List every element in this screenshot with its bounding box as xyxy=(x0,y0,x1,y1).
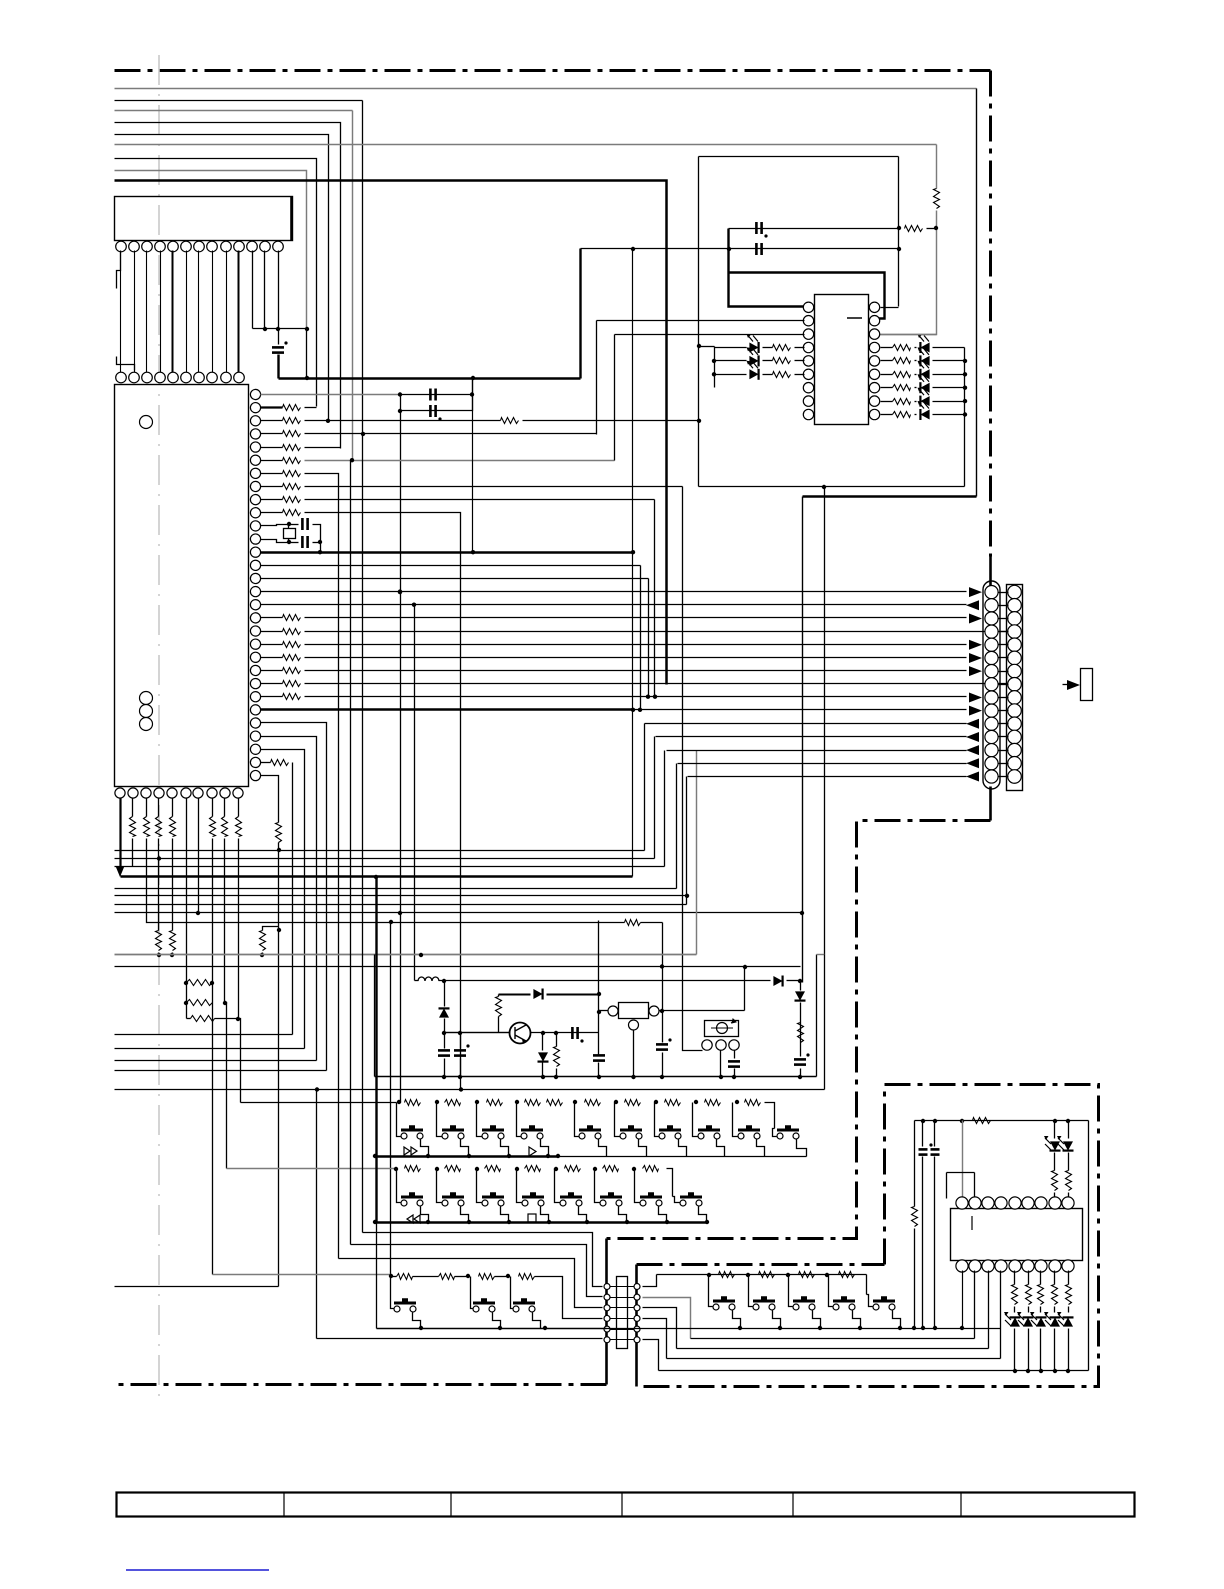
wire P5 extension xyxy=(115,1089,825,1091)
junction xyxy=(210,981,214,985)
junction xyxy=(1026,1369,1030,1373)
w xyxy=(933,374,965,376)
w xyxy=(1040,1307,1042,1313)
arrowhead into CN1-7 xyxy=(969,666,982,676)
hole xyxy=(140,718,153,731)
switch S24 xyxy=(793,1298,815,1310)
w xyxy=(922,1121,924,1147)
resistor key4 xyxy=(759,1272,775,1278)
wire x824 lower xyxy=(824,955,826,1090)
switch wire up xyxy=(655,1103,659,1137)
wire IC2 pin7 xyxy=(261,473,283,475)
w xyxy=(922,1157,924,1329)
CN1 mate pin 7 xyxy=(1008,664,1022,678)
w xyxy=(1040,1271,1042,1285)
capacitor C10 electrolytic xyxy=(454,1050,466,1055)
jumper box left xyxy=(946,1173,948,1199)
junction xyxy=(697,419,701,423)
junction xyxy=(498,1326,502,1330)
wire col198 xyxy=(198,799,200,913)
junction xyxy=(398,589,402,593)
IC2 bottom pin 10 xyxy=(233,788,243,798)
switch S19 xyxy=(394,1300,416,1312)
switch wire down xyxy=(579,1207,587,1223)
resistor on pin30 line xyxy=(276,823,282,843)
junction xyxy=(858,1326,862,1330)
junction xyxy=(597,1075,601,1079)
w xyxy=(1054,1193,1056,1199)
IC1 right edge thick xyxy=(290,197,293,241)
CN1 pin 3 xyxy=(985,612,998,625)
w xyxy=(763,374,773,376)
wire IC2 pin21 xyxy=(261,657,283,659)
CN1 pin 1 xyxy=(985,586,998,599)
tick xyxy=(999,723,1009,725)
bus wire VDD xyxy=(115,88,977,90)
junction xyxy=(963,399,967,403)
thick wire up to cap row xyxy=(579,249,581,379)
junction xyxy=(707,1273,711,1277)
w xyxy=(498,995,500,997)
thick wire xyxy=(499,994,531,996)
IC2 bottom pin 5 xyxy=(167,788,177,798)
tick xyxy=(999,750,1009,752)
wire to riser xyxy=(263,927,279,931)
resistor col x212 xyxy=(210,817,216,837)
wire x307 lower xyxy=(306,329,308,379)
switch wire up xyxy=(575,1103,579,1137)
U2 pin L2 xyxy=(803,316,813,326)
IC4 bottom pin x1055 xyxy=(1049,1260,1061,1272)
w xyxy=(1040,1329,1042,1371)
wire to CN1-7 xyxy=(305,670,967,672)
IC3 pin in xyxy=(608,1006,618,1016)
connector row pin 2 xyxy=(129,372,140,383)
wire xyxy=(305,486,683,488)
junction xyxy=(573,1100,577,1104)
tick xyxy=(999,657,1009,659)
resistor key xyxy=(487,1100,503,1106)
resistor key xyxy=(585,1100,601,1106)
w xyxy=(1054,1153,1056,1171)
junction xyxy=(426,1154,430,1158)
arrowhead out of CN1-2 xyxy=(966,600,979,610)
wire IC1 pin7 to CN row xyxy=(198,251,200,373)
wire P4 xyxy=(115,1070,327,1072)
wire IC2 pin14 xyxy=(261,565,641,567)
wire CN2-3 xyxy=(643,1308,677,1349)
key row2 feed gray xyxy=(227,1168,397,1170)
junction xyxy=(157,953,161,957)
wire to riser xyxy=(305,407,317,409)
junction xyxy=(276,327,280,331)
U3 pin3 xyxy=(729,1040,739,1050)
w xyxy=(763,347,773,349)
junction xyxy=(263,327,267,331)
capacitor C4 xyxy=(302,518,307,530)
switch wire down xyxy=(679,1139,687,1157)
diode D14 xyxy=(538,1052,548,1061)
switch wire down xyxy=(541,1139,549,1157)
capacitor C12 xyxy=(593,1055,605,1060)
switch S1 xyxy=(401,1127,423,1139)
U3 pin1 xyxy=(702,1040,712,1050)
wire col x225 xyxy=(224,799,226,817)
connector row pin 6 xyxy=(181,372,192,383)
tick xyxy=(999,697,1009,699)
resistor R18 xyxy=(271,760,289,766)
IC2 bottom pin 4 xyxy=(154,788,164,798)
connector CN2 housing xyxy=(617,1277,628,1349)
tick xyxy=(611,1329,635,1331)
jumper box top xyxy=(947,1172,975,1174)
wire cap row xyxy=(729,228,899,230)
wire IC2 pin8 xyxy=(261,486,283,488)
CN1 mate pin 4 xyxy=(1008,625,1022,639)
wire down to pin4 row xyxy=(362,101,364,435)
junction xyxy=(318,540,322,544)
w xyxy=(1014,1271,1016,1285)
diode D13 xyxy=(533,989,542,999)
junction xyxy=(897,226,901,230)
resistor key3 xyxy=(479,1274,495,1280)
CN1 mate pin 6 xyxy=(1008,651,1022,665)
wire to photodiode D1 xyxy=(715,347,747,349)
op-amp U2 driver IC xyxy=(815,295,869,425)
wire col x159 xyxy=(158,799,160,817)
resistor R29 xyxy=(893,372,911,378)
capacitor C3 electrolytic xyxy=(430,405,435,417)
switch S21 xyxy=(513,1300,535,1312)
switch wire down xyxy=(599,1139,607,1157)
switch wire down xyxy=(853,1311,861,1329)
switch S15 xyxy=(560,1194,582,1206)
bus wire 7 down to pin2 row xyxy=(115,159,317,407)
wire U2 R8 xyxy=(881,401,893,403)
IC2 pin 27 xyxy=(250,731,260,741)
junction xyxy=(825,1273,829,1277)
wire IC2 pin29 xyxy=(261,762,271,764)
thick bus wire to connector row8 xyxy=(115,181,667,685)
connector CN1 right housing xyxy=(1007,585,1023,791)
junction xyxy=(442,979,446,983)
resistor R40 xyxy=(973,1118,991,1124)
junction xyxy=(398,590,402,594)
resistor R36 xyxy=(625,920,641,926)
junction xyxy=(798,1075,802,1079)
bus row H xyxy=(115,912,803,914)
connector row pin 4 xyxy=(155,372,166,383)
switch S12 xyxy=(442,1194,464,1206)
CN1 pin 6 xyxy=(985,651,998,664)
IC4 top pin x1055 xyxy=(1049,1197,1061,1209)
wire IC1 pin6 to CN row xyxy=(186,251,188,373)
wire down long xyxy=(305,513,461,1090)
junction xyxy=(597,1010,601,1014)
key bus row1 thin xyxy=(559,1156,807,1158)
CN1 mate pin 1 xyxy=(1008,585,1022,599)
junction xyxy=(585,1220,589,1224)
wire U2 R7 xyxy=(881,387,893,389)
resistor key4 xyxy=(719,1272,735,1278)
wire xyxy=(1063,684,1069,686)
w xyxy=(800,981,802,991)
junction xyxy=(223,1001,227,1005)
IC2 pin 14 xyxy=(250,560,260,570)
capacitor C5 xyxy=(302,536,307,548)
U2 pin L7 xyxy=(803,383,813,393)
junction xyxy=(625,1220,629,1224)
wire down to key row3 xyxy=(390,923,392,1277)
CN2 pin 3 xyxy=(604,1305,610,1311)
switch wire down xyxy=(501,1139,509,1157)
bus wire 5 down to pin3 row xyxy=(115,135,329,421)
LED common bus xyxy=(964,348,966,487)
wire col186 xyxy=(186,799,188,1019)
resistor R34 xyxy=(496,997,502,1017)
main board outline right solid into connector xyxy=(989,557,992,587)
resistor R16 xyxy=(283,681,301,687)
w xyxy=(933,414,965,416)
resistor R46 xyxy=(1038,1285,1044,1305)
gray link xyxy=(817,954,825,956)
junction xyxy=(1066,1369,1070,1373)
CN2 mate pin 5 xyxy=(634,1326,640,1332)
w xyxy=(795,347,805,349)
wire IC2 pin10 xyxy=(261,512,283,514)
junction xyxy=(960,1326,964,1330)
resistor R26 xyxy=(773,372,791,378)
wire IC2 pin1 xyxy=(261,394,401,396)
U2 pin R6 xyxy=(869,369,879,379)
junction xyxy=(963,412,967,416)
resistor R13 xyxy=(283,642,301,648)
resistor R near border xyxy=(934,189,940,209)
resistor key xyxy=(705,1100,721,1106)
wire to CN2-4 xyxy=(535,1277,603,1319)
junction xyxy=(934,226,938,230)
junction xyxy=(470,392,474,396)
switch wire up xyxy=(471,1277,473,1309)
IC4 top pin x1068 xyxy=(1062,1197,1074,1209)
junction xyxy=(653,695,657,699)
w xyxy=(215,1018,239,1020)
IC4 bottom pin x975 xyxy=(969,1260,981,1272)
CN1 mate pin 5 xyxy=(1008,638,1022,652)
wire IC2 pin16 to CN1-1 xyxy=(261,591,967,593)
junction xyxy=(631,1075,635,1079)
row 1349 xyxy=(677,1348,989,1350)
wire xyxy=(288,525,290,529)
wire IC1 pin8 to CN row xyxy=(212,251,214,373)
wire IC2 pin18 xyxy=(261,617,283,619)
tick xyxy=(999,710,1009,712)
w xyxy=(1068,1121,1070,1139)
tick xyxy=(999,776,1009,778)
CN2 mate pin 1 xyxy=(634,1284,640,1290)
junction xyxy=(426,1220,430,1224)
w xyxy=(641,922,663,924)
capacitor C1 electrolytic xyxy=(272,347,284,352)
resistor R4 xyxy=(283,431,301,437)
w xyxy=(547,994,599,996)
connector row pin 10 xyxy=(234,372,245,383)
IC4 pin wire xyxy=(988,1271,990,1349)
w xyxy=(1028,1329,1030,1371)
tick xyxy=(611,1339,635,1341)
junction xyxy=(374,875,378,879)
w xyxy=(1014,1329,1016,1371)
junction xyxy=(1053,1119,1057,1123)
CN1 pin 9 xyxy=(985,691,998,704)
thick wire IC2 pin25 xyxy=(261,708,633,710)
junction xyxy=(541,1031,545,1035)
wire IC2 pin24 xyxy=(261,696,283,698)
wire stub left xyxy=(117,251,121,289)
junction xyxy=(654,1100,658,1104)
w xyxy=(158,953,160,955)
switch S2 xyxy=(442,1127,464,1139)
CN1 pin 15 xyxy=(985,770,998,783)
wire col238 xyxy=(238,839,240,1019)
junction xyxy=(546,1154,550,1158)
w xyxy=(1054,1307,1056,1313)
hole xyxy=(140,416,153,429)
wire cap row 2 xyxy=(581,248,899,250)
base wire xyxy=(445,1032,511,1034)
junction xyxy=(287,522,291,526)
resistor R27 xyxy=(893,345,911,351)
wire gray xyxy=(305,460,615,462)
base wire xyxy=(445,1032,511,1034)
wire U2 R4 xyxy=(881,347,893,349)
switch S20 xyxy=(473,1300,495,1312)
IC2 pin 24 xyxy=(250,692,260,702)
wire P1 xyxy=(115,1034,293,1036)
sub board bus xyxy=(607,1328,1001,1330)
resistor key xyxy=(665,1100,681,1106)
junction xyxy=(389,920,393,924)
resistor key4 xyxy=(839,1272,855,1278)
key row3 feed xyxy=(213,1274,391,1276)
resistor R21 xyxy=(191,1016,215,1022)
bus row G xyxy=(115,904,687,906)
junction xyxy=(442,1075,446,1079)
transistor Q1 xyxy=(510,1023,531,1044)
wire to IC4 pin T1 xyxy=(962,1121,964,1199)
junction xyxy=(554,1031,558,1035)
CN1 pin 8 xyxy=(985,678,998,691)
right riser xyxy=(816,955,818,1077)
junction xyxy=(471,550,475,554)
resistor R47 xyxy=(1052,1285,1058,1305)
switch wire down xyxy=(421,1139,429,1157)
IC2 pin 6 xyxy=(250,455,260,465)
icon FF xyxy=(404,1147,417,1155)
riser x633 to cap row xyxy=(632,249,634,877)
junction xyxy=(921,1119,925,1123)
bus row C xyxy=(115,866,665,868)
main board outline bottom xyxy=(115,1383,607,1386)
connector row pin 3 xyxy=(142,372,153,383)
title block table xyxy=(117,1493,1135,1517)
w xyxy=(542,1063,544,1077)
junction xyxy=(631,708,635,712)
key bus row3 xyxy=(377,1328,607,1330)
switch wire up xyxy=(709,1275,713,1307)
junction xyxy=(556,1154,560,1158)
IC4 bottom pin x988 xyxy=(982,1260,994,1272)
tick xyxy=(999,605,1009,607)
CN2 pin 5 xyxy=(604,1326,610,1332)
switch wire down xyxy=(533,1313,541,1329)
IC4 top pin x988 xyxy=(982,1197,994,1209)
resistor R9 xyxy=(283,497,301,503)
thick supply wire xyxy=(279,377,581,379)
w xyxy=(1014,1307,1016,1313)
wire to CN1-12 xyxy=(656,736,967,738)
w xyxy=(933,387,965,389)
resistor key xyxy=(405,1166,421,1172)
IC2 system controller block xyxy=(115,385,249,787)
resistor key xyxy=(445,1100,461,1106)
wire to CN1-14 xyxy=(678,763,967,765)
U2 pin R5 xyxy=(869,356,879,366)
IC2 pin 13 xyxy=(250,547,260,557)
arrowhead out of CN1-11 xyxy=(966,719,979,729)
w xyxy=(598,921,600,1055)
w xyxy=(262,953,264,955)
junction xyxy=(471,376,475,380)
junction xyxy=(458,1031,462,1035)
connector CN1 left housing xyxy=(983,581,1000,789)
switch wire up xyxy=(635,1169,641,1203)
wire IC1 pin5 to CN row xyxy=(172,251,174,373)
w xyxy=(720,1051,722,1077)
switch wire up xyxy=(829,1275,833,1307)
junction xyxy=(475,1167,479,1171)
wire IC1 pin9 to CN row xyxy=(226,251,228,373)
sub board outline notch vertical xyxy=(883,1085,886,1265)
wire xyxy=(400,395,402,411)
connector row pin 8 xyxy=(207,372,218,383)
LED D5 xyxy=(920,356,929,366)
switch S4 xyxy=(521,1127,543,1139)
CN1 mate pin 13 xyxy=(1008,743,1022,757)
hole xyxy=(140,705,153,718)
CN2 mate pin 2 xyxy=(634,1294,640,1300)
arrowhead out of CN1-15 xyxy=(966,771,979,781)
CN1 mate pin 15 xyxy=(1008,770,1022,784)
w xyxy=(187,1018,191,1020)
diode D10 xyxy=(773,976,782,986)
IC4 bottom pin x962 xyxy=(956,1260,968,1272)
wire down to coil row xyxy=(414,605,416,981)
IC4 bottom pin x1015 xyxy=(1009,1260,1021,1272)
w xyxy=(800,1069,802,1077)
IC3 pin gnd xyxy=(629,1020,639,1030)
U3 pin2 xyxy=(716,1040,726,1050)
arrowhead into CN1-9 xyxy=(969,692,982,702)
w xyxy=(633,1031,635,1077)
wire to CN1-5 xyxy=(305,644,967,646)
w xyxy=(444,981,446,1007)
junction xyxy=(632,1167,636,1171)
junction xyxy=(593,1167,597,1171)
switch wire up xyxy=(673,1197,681,1203)
CN2 pin 2 xyxy=(604,1294,610,1300)
display driver IC4 xyxy=(951,1209,1083,1261)
